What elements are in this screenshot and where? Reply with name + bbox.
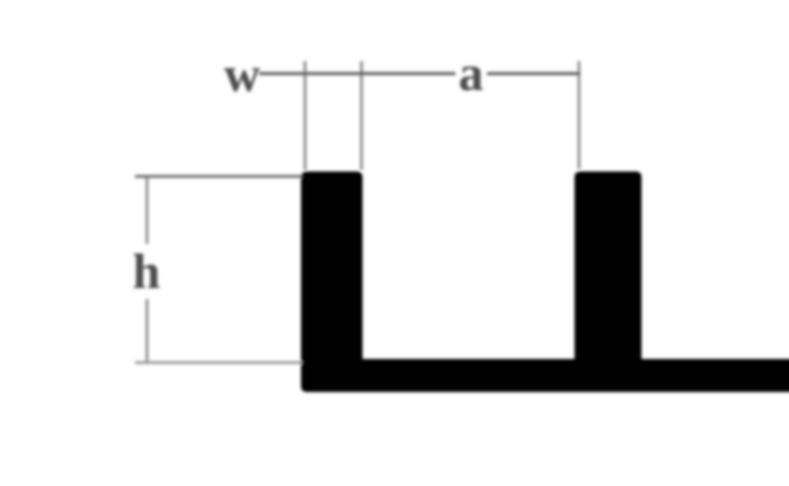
svg-text:w: w xyxy=(224,46,260,102)
label a xyxy=(459,45,484,101)
svg-text:h: h xyxy=(133,243,161,299)
label h xyxy=(133,243,161,299)
h dimension vertical line upper segment xyxy=(146,176,149,244)
h top tick line xyxy=(135,175,302,178)
dimension line w segment xyxy=(259,72,456,75)
base substrate bar xyxy=(301,359,789,392)
post 1 (left fin) xyxy=(301,172,363,367)
post 2 (right fin) xyxy=(575,172,642,367)
extension line at post2 left edge xyxy=(578,61,581,169)
label w xyxy=(224,46,260,102)
extension line at post1 left edge xyxy=(304,61,307,170)
svg-text:a: a xyxy=(459,45,484,101)
extension line at post1 right edge xyxy=(360,61,363,170)
h bottom tick line xyxy=(135,361,302,364)
dimension line a segment xyxy=(487,72,580,75)
h dimension vertical line lower segment xyxy=(146,299,149,363)
